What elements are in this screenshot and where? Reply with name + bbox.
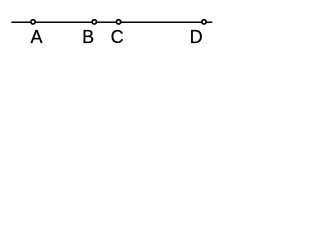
node B: open circle (92, 20, 96, 24)
label D (190, 28, 203, 46)
node D: open circle (202, 20, 206, 24)
figure: line with points A, B, C, D (0, 0, 221, 86)
node A: open circle (31, 20, 35, 24)
node C: open circle (116, 20, 120, 24)
background (0, 0, 221, 86)
label A (31, 28, 43, 46)
label B (82, 28, 94, 46)
label C (111, 28, 124, 46)
wire: horizontal line through A B C D (11, 21, 212, 23)
